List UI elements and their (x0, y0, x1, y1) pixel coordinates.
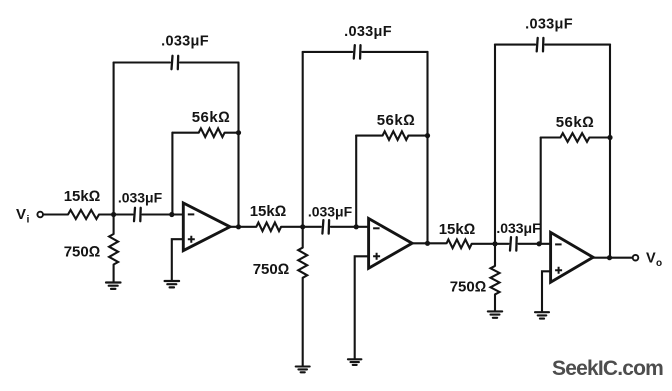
wire top left to C4 (303, 51, 353, 53)
svg-text:V: V (646, 251, 656, 267)
svg-text:750Ω: 750Ω (450, 279, 487, 296)
capacitor C2 .033uF feedback (172, 56, 179, 69)
wire output riser stage1 (237, 63, 239, 227)
wire top left to C2 (114, 61, 170, 63)
wire R1 to node A1 (99, 213, 114, 215)
junction U2 output (425, 241, 430, 246)
wire C6 to output riser (545, 44, 610, 46)
node A1 junction (111, 212, 116, 217)
output terminal Vo (633, 255, 639, 261)
svg-text:15kΩ: 15kΩ (250, 203, 287, 220)
svg-text:.033μF: .033μF (344, 24, 392, 40)
wire C2 to output riser (180, 61, 239, 63)
resistor R6 750 ohm (298, 227, 307, 366)
resistor R3 750 ohm (109, 215, 118, 283)
svg-text:V: V (16, 206, 26, 223)
resistor R2 56k ohm feedback (199, 128, 225, 137)
capacitor C5 .033uF series (510, 237, 517, 251)
wire output riser stage3 (609, 45, 611, 258)
label R4 15k ohm (250, 203, 287, 220)
wire R8 to output riser (589, 136, 610, 138)
label C2 .033uF (161, 34, 209, 50)
wire node B2 riser to R5 (355, 136, 357, 227)
label R3 750 ohm (64, 244, 101, 261)
label R7 15k ohm (439, 221, 476, 238)
wire C4 to output riser (362, 51, 427, 53)
label R1 15k ohm (64, 188, 101, 205)
svg-text:.033μF: .033μF (118, 190, 163, 206)
watermark SeekIC.com (552, 357, 663, 380)
svg-text:56kΩ: 56kΩ (556, 114, 595, 131)
junction U3 output (607, 255, 612, 260)
junction R5 output riser (425, 133, 430, 138)
wire node A3 riser to C6 (494, 45, 496, 244)
node B3 junction (537, 241, 542, 246)
op-amp U2 (369, 219, 413, 269)
svg-text:56kΩ: 56kΩ (192, 109, 231, 126)
wire C3 to node B2 (331, 226, 356, 228)
wire node A3 to C5 (495, 243, 509, 245)
resistor R4 15k ohm (256, 223, 281, 232)
wire C1 to node B1 (142, 213, 171, 215)
svg-text:.033μF: .033μF (525, 17, 573, 33)
wire node A1 riser to feedback cap C2 (113, 63, 115, 215)
capacitor C3 .033uF series (322, 220, 329, 234)
svg-text:.033μF: .033μF (496, 220, 541, 236)
wire U2 output (412, 242, 446, 244)
wire B3 riser to R8 left (541, 136, 561, 138)
op-amp U3 (551, 232, 594, 282)
wire node B3 riser to R8 (540, 138, 542, 245)
input terminal Vi (37, 212, 43, 218)
ground R6 (296, 367, 310, 373)
wire output riser stage2 (426, 52, 428, 243)
node B2 junction (354, 224, 359, 229)
node Vo output label (646, 251, 662, 270)
wire Vi to R1 (43, 213, 68, 215)
capacitor C1 .033uF series (134, 208, 141, 221)
junction U1 output (236, 224, 241, 229)
label C5 .033uF (496, 220, 541, 236)
svg-text:15kΩ: 15kΩ (64, 188, 101, 205)
label C4 .033uF (344, 24, 392, 40)
ground U1 plus input (165, 281, 180, 287)
label R9 750 ohm (450, 279, 487, 296)
resistor R9 750 ohm (491, 244, 500, 311)
node A3 junction (492, 241, 497, 246)
wire U1 plus input to ground (172, 239, 184, 280)
wire U3 output to Vo (593, 257, 633, 259)
ground R3 (106, 283, 121, 289)
label R5 56k ohm (377, 112, 416, 129)
wire B2 riser to R5 left (356, 135, 382, 137)
resistor R1 15k ohm (68, 210, 99, 219)
wire U3 plus input to ground (542, 271, 551, 311)
wire R5 to output riser (408, 135, 427, 137)
svg-text:.033μF: .033μF (161, 34, 209, 50)
label R2 56k ohm (192, 109, 231, 126)
resistor R8 56k ohm feedback (560, 133, 589, 142)
wire R4 to node A2 (281, 226, 303, 228)
wire node A2 to C3 (303, 226, 321, 228)
wire node B1 riser to R2 (171, 133, 173, 215)
wire C5 to node B3 (519, 243, 540, 245)
wire B1 riser to R2 left (172, 132, 198, 134)
node B1 junction (169, 212, 174, 217)
svg-text:.033μF: .033μF (308, 204, 353, 220)
svg-text:15kΩ: 15kΩ (439, 221, 476, 238)
wire node A1 to C1 (114, 213, 133, 215)
node A2 junction (300, 224, 305, 229)
svg-text:750Ω: 750Ω (253, 261, 290, 278)
capacitor C6 .033uF feedback (537, 38, 544, 52)
svg-text:750Ω: 750Ω (64, 244, 101, 261)
label R6 750 ohm (253, 261, 290, 278)
label C3 .033uF (308, 204, 353, 220)
wire B3 to op-amp U3 (539, 243, 551, 245)
svg-text:o: o (656, 258, 662, 269)
wire B1 to op-amp U1 (172, 213, 184, 215)
label C6 .033uF (525, 17, 573, 33)
wire node A2 riser to C4 (302, 52, 304, 227)
node Vi input label (16, 206, 30, 226)
op-amp U1 (183, 203, 230, 251)
ground U2 plus input (348, 359, 362, 365)
wire B2 to op-amp U2 (356, 226, 368, 228)
ground U3 plus input (535, 312, 549, 318)
wire R2 to output riser (225, 132, 239, 134)
svg-text:56kΩ: 56kΩ (377, 112, 416, 129)
ground R9 (488, 311, 502, 317)
wire R7 to node A3 (472, 243, 495, 245)
capacitor C4 .033uF feedback (354, 45, 361, 59)
svg-text:SeekIC.com: SeekIC.com (552, 357, 663, 380)
junction R8 output riser (607, 135, 612, 140)
wire U2 plus input to ground (355, 256, 369, 359)
resistor R5 56k ohm feedback (383, 131, 409, 140)
label C1 .033uF (118, 190, 163, 206)
label R8 56k ohm (556, 114, 595, 131)
wire top left to C6 (495, 44, 535, 46)
junction R2 output riser (236, 130, 241, 135)
wire U1 output (230, 226, 256, 228)
resistor R7 15k ohm (446, 240, 471, 249)
svg-text:i: i (27, 214, 30, 226)
